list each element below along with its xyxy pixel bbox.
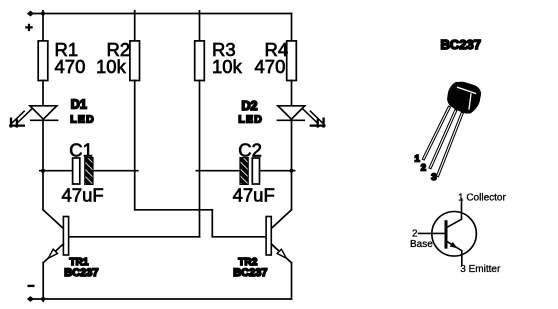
wire top supply rail	[29, 13, 292, 15]
BC237 symbol emitter arrow	[450, 242, 458, 248]
svg-text:10k: 10k	[212, 56, 243, 77]
wire node C to C2 left plate (junction tick)	[196, 170, 240, 172]
svg-text:TR1: TR1	[70, 257, 89, 268]
svg-text:470: 470	[55, 56, 86, 77]
svg-text:2: 2	[421, 163, 426, 174]
svg-text:C2: C2	[238, 139, 262, 160]
transistor TR2	[266, 210, 291, 263]
svg-text:TR2: TR2	[238, 257, 257, 268]
wire rail to R3 (junction stub)	[199, 11, 201, 41]
capacitor C2	[240, 158, 260, 185]
svg-text:BC237: BC237	[233, 267, 267, 279]
wire TR2 emitter down right side	[291, 262, 293, 299]
BC237 package leg 2	[430, 111, 455, 167]
wire TR1 base run	[69, 236, 200, 238]
node minus terminal label	[29, 285, 34, 287]
svg-text:Base: Base	[410, 239, 433, 250]
resistor R4	[287, 41, 297, 81]
BC237 symbol base lead	[419, 232, 445, 234]
wire rail corner to R4	[291, 14, 293, 41]
wire R3 down to TR1 base level	[199, 81, 201, 237]
resistor R3	[195, 41, 205, 81]
wire vertical drop to TR2 base level	[211, 210, 213, 237]
BC237 symbol collector lead	[446, 199, 461, 228]
wire C1 right plate to node B	[93, 170, 138, 172]
capacitor C1	[73, 158, 93, 185]
svg-text:2: 2	[412, 228, 418, 239]
D2 light emission arrows	[303, 109, 324, 126]
svg-text:47uF: 47uF	[233, 185, 275, 206]
svg-text:47uF: 47uF	[62, 185, 104, 206]
node junction dot at C2 right	[290, 169, 293, 172]
svg-text:10k: 10k	[96, 56, 127, 77]
svg-text:3 Emitter: 3 Emitter	[460, 264, 501, 275]
svg-text:D1: D1	[71, 97, 87, 111]
node junction dot at ground/TR1 emitter	[41, 297, 44, 300]
node junction dot at rail/R1	[41, 12, 44, 15]
transistor TR1	[43, 210, 69, 263]
wire R2 down through C1 node	[134, 81, 136, 210]
wire bottom ground rail	[29, 298, 292, 300]
wire TR1 emitter to ground rail	[42, 262, 44, 301]
svg-text:LED: LED	[238, 113, 263, 125]
wire rail to R1 (junction stub)	[42, 11, 44, 41]
svg-text:BC237: BC237	[64, 267, 98, 279]
BC237 package leg 1	[424, 108, 449, 159]
LED D2	[277, 106, 304, 121]
svg-text:D2: D2	[242, 99, 258, 113]
node ground arrow left end	[28, 297, 34, 302]
LED D1	[30, 106, 58, 121]
BC237 TO-92 package body	[447, 82, 481, 114]
resistor R2	[130, 41, 140, 81]
svg-text:3: 3	[431, 172, 436, 183]
node plus terminal label	[26, 25, 31, 30]
BC237 symbol base bar	[445, 222, 448, 247]
wire R4 to D2 anode	[291, 81, 293, 107]
D1 light emission arrows	[10, 109, 31, 126]
wire node B across to TR2 base (horizontal run)	[135, 209, 213, 211]
svg-text:LED: LED	[70, 113, 95, 125]
node supply arrow left end	[28, 11, 34, 16]
svg-text:C1: C1	[69, 139, 93, 160]
BC237 package leg 3	[438, 114, 462, 176]
wire R1 to D1 anode	[42, 81, 44, 107]
resistor R1	[38, 41, 48, 81]
svg-text:470: 470	[255, 56, 286, 77]
BC237 symbol emitter lead	[446, 241, 462, 265]
wire node A to C1 left plate (junction tick)	[40, 170, 73, 172]
BC237 symbol circle	[432, 212, 477, 257]
wire to TR2 base	[212, 236, 266, 238]
wire D1 cathode down to TR1 collector node	[42, 120, 44, 209]
node junction dot at C1 left	[41, 169, 44, 172]
svg-text:1: 1	[415, 153, 421, 164]
wire rail to R2 (junction stub)	[134, 11, 136, 41]
wire D2 cathode down to TR2 collector node	[291, 120, 293, 209]
wire C2 right plate to node D	[260, 170, 295, 172]
svg-text:1 Collector: 1 Collector	[458, 192, 506, 203]
svg-text:BC237: BC237	[441, 37, 481, 52]
